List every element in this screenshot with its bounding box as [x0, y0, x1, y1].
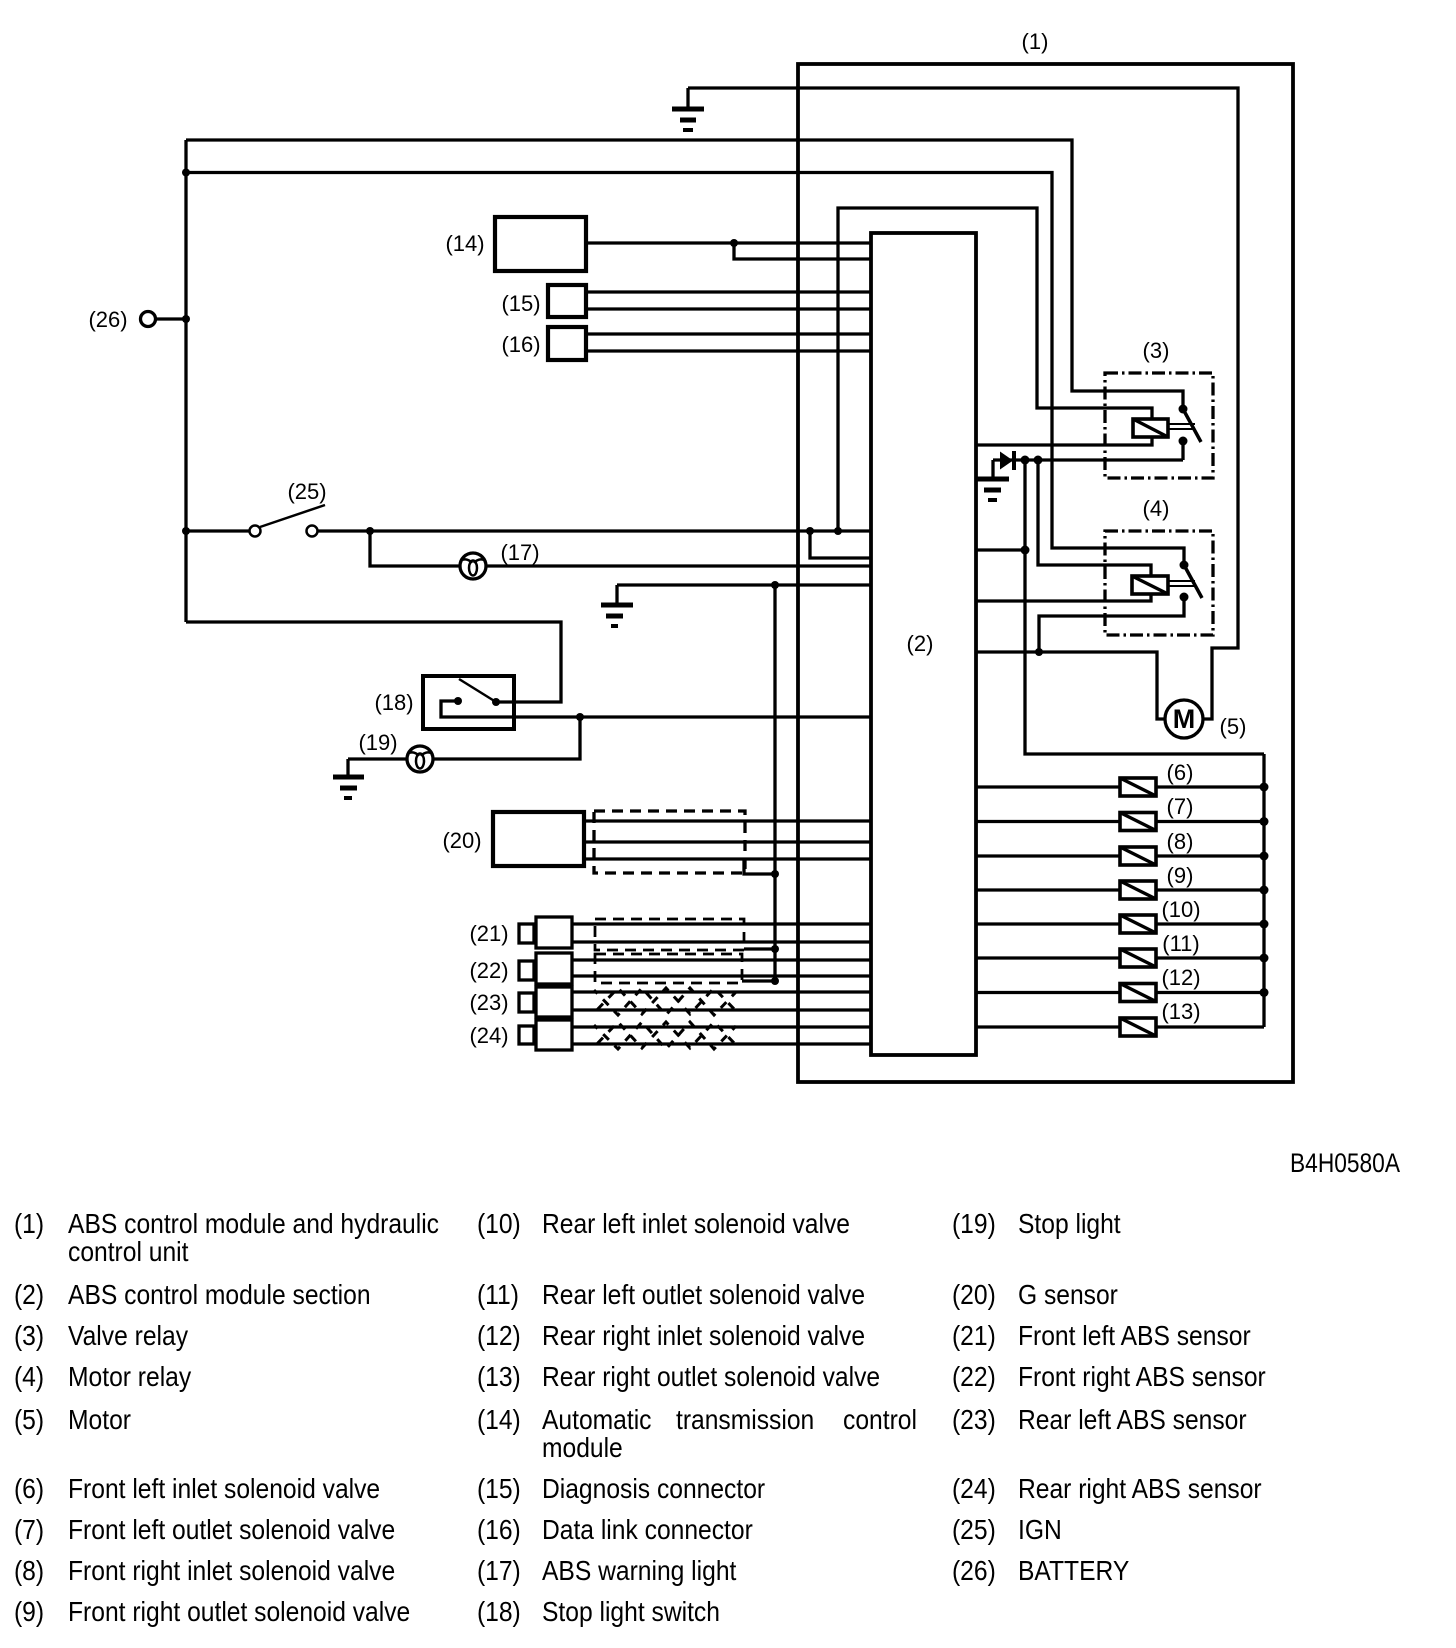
wire ATC branch	[734, 243, 871, 259]
svg-text:(15): (15)	[501, 291, 540, 316]
front left ABS sensor (21)	[519, 917, 572, 948]
label (11)	[1162, 931, 1200, 956]
svg-text:transmission: transmission	[676, 1404, 814, 1436]
relay 4 lower contact	[1180, 593, 1189, 602]
junction motor line	[1035, 648, 1043, 656]
wires sensor 22	[572, 960, 871, 976]
wire ATC to module	[586, 241, 871, 244]
wire relay 3 lower contact drop	[1181, 441, 1184, 460]
label (5)	[1220, 714, 1247, 739]
wire IGN line	[186, 529, 871, 532]
wires data link connector	[586, 334, 871, 351]
wire solenoid bus feed	[1025, 460, 1264, 754]
wire IGN to relay coil feed (y207)	[838, 208, 1152, 531]
svg-text:(9): (9)	[1167, 863, 1194, 888]
junction bus 6	[1260, 783, 1269, 792]
svg-text:(6): (6)	[14, 1473, 44, 1505]
junction bus 11	[1260, 954, 1269, 963]
front right ABS sensor (22)	[519, 953, 572, 984]
svg-text:(14): (14)	[477, 1404, 521, 1436]
solenoid valve (11) rear left outlet	[976, 949, 1264, 967]
svg-text:(11): (11)	[477, 1279, 519, 1311]
label (23)	[469, 990, 508, 1015]
svg-text:Rear left ABS sensor: Rear left ABS sensor	[1018, 1404, 1247, 1436]
relay 3 blade	[1183, 409, 1201, 442]
svg-text:IGN: IGN	[1018, 1514, 1062, 1546]
junction diode line B	[1034, 456, 1043, 465]
svg-text:(21): (21)	[952, 1320, 996, 1352]
svg-text:Rear left inlet solenoid valve: Rear left inlet solenoid valve	[542, 1208, 850, 1240]
data link connector (16)	[548, 327, 586, 360]
junction bus 9	[1260, 886, 1269, 895]
label (17)	[500, 540, 539, 565]
junction bus 10	[1260, 920, 1269, 929]
label (14)	[445, 231, 484, 256]
junction bus 7	[1260, 817, 1269, 826]
wire to stop light switch	[186, 622, 561, 702]
svg-text:(4): (4)	[14, 1361, 44, 1393]
box (1) ABS control module and hydraulic control unit	[798, 64, 1293, 1082]
diagnosis connector (15)	[548, 285, 586, 317]
svg-text:ABS control module section: ABS control module section	[68, 1279, 371, 1311]
figure code	[1290, 1148, 1400, 1178]
junction left bus y172	[182, 169, 190, 177]
box (2) ABS control module section	[871, 233, 976, 1055]
svg-text:(26): (26)	[88, 307, 127, 332]
label (10)	[1161, 897, 1200, 922]
svg-text:(9): (9)	[14, 1596, 44, 1628]
svg-text:B4H0580A: B4H0580A	[1290, 1148, 1400, 1178]
wire G sensor shield to ground	[744, 859, 775, 874]
svg-text:(18): (18)	[477, 1596, 521, 1628]
svg-text:(16): (16)	[501, 332, 540, 357]
svg-text:Front left outlet solenoid val: Front left outlet solenoid valve	[68, 1514, 395, 1546]
svg-text:(12): (12)	[477, 1320, 521, 1352]
svg-text:module: module	[542, 1432, 623, 1464]
svg-text:Front right ABS sensor: Front right ABS sensor	[1018, 1361, 1266, 1393]
junction IGN lamp branch	[366, 527, 374, 535]
wire switch output	[441, 701, 871, 717]
diode cathode bar	[1012, 451, 1016, 470]
svg-text:(17): (17)	[500, 540, 539, 565]
svg-text:BATTERY: BATTERY	[1018, 1555, 1129, 1587]
solenoid valve (9) front right outlet	[976, 881, 1264, 899]
wire module to bus feed	[976, 548, 1025, 551]
wire shield 22 stub	[742, 979, 775, 982]
wire module ground line	[617, 583, 871, 586]
label (15)	[501, 291, 540, 316]
svg-text:Rear right inlet solenoid valv: Rear right inlet solenoid valve	[542, 1320, 865, 1352]
wire top feed to valve relay	[186, 140, 1183, 409]
svg-text:(2): (2)	[14, 1279, 44, 1311]
svg-text:Front right inlet solenoid val: Front right inlet solenoid valve	[68, 1555, 395, 1587]
svg-text:(23): (23)	[469, 990, 508, 1015]
stop light switch contacts	[454, 697, 500, 706]
svg-text:(11): (11)	[1162, 931, 1200, 956]
svg-text:(4): (4)	[1143, 496, 1170, 521]
svg-text:(23): (23)	[952, 1404, 996, 1436]
junction battery bus	[182, 315, 190, 323]
battery terminal (26)	[141, 312, 156, 327]
svg-text:(10): (10)	[1161, 897, 1200, 922]
label (25)	[287, 479, 326, 504]
rear right ABS sensor (24)	[519, 1020, 572, 1050]
junction bus 8	[1260, 852, 1269, 861]
label (9)	[1167, 863, 1194, 888]
solenoid bus	[1262, 754, 1265, 1027]
solenoid valve (12) rear right inlet	[976, 984, 1264, 1002]
wire relay 4 coil feed	[1038, 460, 1151, 576]
svg-text:Front left ABS sensor: Front left ABS sensor	[1018, 1320, 1251, 1352]
svg-text:(26): (26)	[952, 1555, 996, 1587]
wire IGN branch to module	[810, 531, 871, 558]
junction IGN bus	[182, 527, 190, 535]
svg-text:(20): (20)	[442, 828, 481, 853]
svg-text:(18): (18)	[374, 690, 413, 715]
relay box (3) valve relay	[1105, 373, 1213, 478]
wires sensor 23	[572, 992, 871, 1010]
svg-text:Motor relay: Motor relay	[68, 1361, 192, 1393]
svg-text:Data link connector: Data link connector	[542, 1514, 753, 1546]
label (2)	[907, 631, 934, 656]
ground (stop light)	[333, 759, 364, 798]
svg-text:G sensor: G sensor	[1018, 1279, 1118, 1311]
wires sensor 24	[572, 1027, 871, 1044]
svg-text:(13): (13)	[1161, 999, 1200, 1024]
svg-text:(22): (22)	[469, 958, 508, 983]
sensor 22 shield box	[595, 954, 742, 983]
relay 4 coil	[1132, 576, 1168, 594]
junction bus 12	[1260, 988, 1269, 997]
label (21)	[469, 921, 508, 946]
svg-text:(7): (7)	[1167, 794, 1194, 819]
ground (top)	[672, 88, 704, 130]
wire shield ground vertical	[773, 585, 776, 981]
svg-text:control unit: control unit	[68, 1236, 189, 1268]
label (22)	[469, 958, 508, 983]
sensor 21 shield box	[595, 919, 744, 950]
svg-text:(8): (8)	[14, 1555, 44, 1587]
wire battery to bus	[156, 317, 187, 320]
junction shield 21	[771, 945, 779, 953]
svg-text:Diagnosis connector: Diagnosis connector	[542, 1473, 765, 1505]
svg-text:(2): (2)	[907, 631, 934, 656]
svg-text:(19): (19)	[358, 730, 397, 755]
diode	[1000, 452, 1013, 470]
ATC module (14)	[495, 217, 586, 271]
ground (module)	[601, 585, 633, 626]
relay 3 coil	[1133, 419, 1168, 437]
svg-text:(1): (1)	[1022, 29, 1049, 54]
stop light switch (18)	[423, 676, 514, 729]
label (12)	[1161, 965, 1200, 990]
svg-text:(24): (24)	[952, 1473, 996, 1505]
wire relay 4 coil return	[976, 594, 1151, 601]
wire left bus vertical	[184, 140, 187, 622]
relay 4 blade	[1184, 565, 1202, 598]
ABS warning light (17)	[460, 553, 486, 579]
svg-text:(3): (3)	[14, 1320, 44, 1352]
label (4)	[1143, 496, 1170, 521]
G sensor (20)	[493, 812, 584, 866]
svg-text:(13): (13)	[477, 1361, 521, 1393]
svg-text:(10): (10)	[477, 1208, 521, 1240]
svg-text:control: control	[843, 1404, 917, 1436]
solenoid valve (13) rear right outlet	[976, 1018, 1264, 1036]
wire stop light branch	[348, 717, 580, 759]
svg-text:(19): (19)	[952, 1208, 996, 1240]
diode ground	[977, 460, 1009, 500]
wire ABS warning lamp line	[370, 531, 871, 566]
wire top ground line	[688, 88, 1238, 719]
wires diagnosis connector	[586, 292, 871, 309]
svg-text:(17): (17)	[477, 1555, 521, 1587]
solenoid valve (6) front left inlet	[976, 778, 1264, 796]
relay 3 actuator link	[1168, 424, 1195, 429]
svg-text:(5): (5)	[14, 1404, 44, 1436]
svg-text:(15): (15)	[477, 1473, 521, 1505]
junction IGN 810	[806, 527, 814, 535]
label (16)	[501, 332, 540, 357]
label (3)	[1143, 338, 1170, 363]
label (19)	[358, 730, 397, 755]
svg-text:Front right outlet solenoid va: Front right outlet solenoid valve	[68, 1596, 410, 1628]
relay 4 actuator link	[1168, 581, 1195, 586]
svg-text:(24): (24)	[469, 1023, 508, 1048]
junction bus feed	[1021, 546, 1030, 555]
label (26)	[88, 307, 127, 332]
solenoid valve (8) front right inlet	[976, 847, 1264, 865]
wire shield 21 stub	[744, 947, 775, 950]
svg-text:Rear right ABS sensor: Rear right ABS sensor	[1018, 1473, 1262, 1505]
svg-text:(20): (20)	[952, 1279, 996, 1311]
junction ATC wire	[730, 239, 738, 247]
relay 4 upper contact	[1180, 561, 1189, 570]
junction ground sensor-shield branch	[771, 581, 779, 589]
solenoid valve (7) front left outlet	[976, 813, 1264, 831]
stop light switch blade	[459, 679, 496, 702]
IGN switch (25)	[250, 505, 326, 537]
svg-text:(3): (3)	[1143, 338, 1170, 363]
junction IGN 838	[834, 527, 842, 535]
svg-text:(25): (25)	[287, 479, 326, 504]
relay 3 lower contact	[1179, 437, 1188, 446]
motor M text	[1173, 704, 1196, 734]
label (7)	[1167, 794, 1194, 819]
solenoid valve (10) rear left inlet	[976, 915, 1264, 933]
stop light (19)	[407, 746, 433, 772]
label (8)	[1167, 829, 1194, 854]
wire switch feed	[496, 700, 514, 703]
svg-text:ABS warning light: ABS warning light	[542, 1555, 737, 1587]
wire relay 4 lower contact return	[1039, 597, 1184, 652]
wire diode line	[993, 458, 1183, 461]
junction stop lamp branch	[576, 713, 584, 721]
twisted pair 23	[594, 988, 736, 1015]
relay box (4) motor relay	[1105, 531, 1213, 635]
label (18)	[374, 690, 413, 715]
svg-text:Rear left outlet solenoid valv: Rear left outlet solenoid valve	[542, 1279, 865, 1311]
svg-text:(16): (16)	[477, 1514, 521, 1546]
wire motor left to module	[976, 652, 1165, 719]
label (24)	[469, 1023, 508, 1048]
rear left ABS sensor (23)	[519, 987, 572, 1017]
wire second feed to motor relay	[186, 173, 1184, 566]
junction shield 22	[771, 977, 779, 985]
LEGEND	[14, 1208, 1266, 1628]
label (13)	[1161, 999, 1200, 1024]
label (6)	[1167, 760, 1194, 785]
svg-text:(14): (14)	[445, 231, 484, 256]
svg-text:(8): (8)	[1167, 829, 1194, 854]
junction shield ground 874	[771, 870, 779, 878]
svg-text:(25): (25)	[952, 1514, 996, 1546]
junction diode line A	[1021, 456, 1030, 465]
label (20)	[442, 828, 481, 853]
svg-text:Front left inlet solenoid valv: Front left inlet solenoid valve	[68, 1473, 380, 1505]
svg-text:(5): (5)	[1220, 714, 1247, 739]
svg-text:Stop light switch: Stop light switch	[542, 1596, 720, 1628]
G sensor shield box	[594, 811, 745, 873]
svg-text:Rear right outlet solenoid val: Rear right outlet solenoid valve	[542, 1361, 880, 1393]
svg-text:(21): (21)	[469, 921, 508, 946]
svg-text:Stop light: Stop light	[1018, 1208, 1121, 1240]
relay 3 upper contact	[1179, 405, 1188, 414]
wire relay 3 coil return	[976, 437, 1152, 445]
svg-text:M: M	[1173, 704, 1196, 734]
svg-text:Valve relay: Valve relay	[68, 1320, 189, 1352]
motor (5)	[1165, 700, 1203, 738]
twisted pair 24	[594, 1022, 736, 1049]
label (1)	[1022, 29, 1049, 54]
svg-text:Motor: Motor	[68, 1404, 131, 1436]
svg-text:(12): (12)	[1161, 965, 1200, 990]
wires sensor 21	[572, 924, 871, 942]
svg-text:(22): (22)	[952, 1361, 996, 1393]
svg-text:(6): (6)	[1167, 760, 1194, 785]
svg-text:(1): (1)	[14, 1208, 44, 1240]
svg-text:(7): (7)	[14, 1514, 44, 1546]
wires G sensor	[584, 821, 871, 859]
